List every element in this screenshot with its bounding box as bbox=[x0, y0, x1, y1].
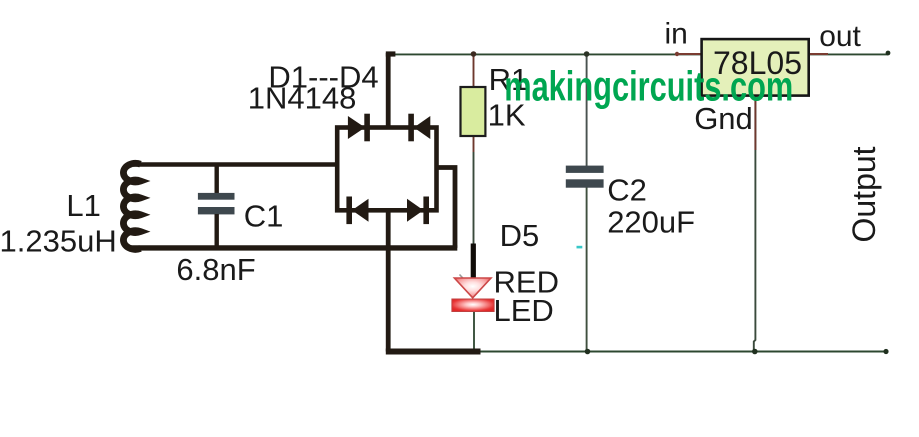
svg-text:1N4148: 1N4148 bbox=[248, 81, 357, 116]
capacitor C2 plates bbox=[566, 166, 604, 173]
regulator U1 78L05 body bbox=[702, 39, 809, 96]
svg-text:C2: C2 bbox=[607, 173, 647, 208]
diode D1 (top-left of bridge) bbox=[348, 114, 370, 142]
capacitor C1 plates bbox=[198, 193, 235, 200]
svg-text:out: out bbox=[819, 20, 861, 53]
wire: C2 bottom lead to bottom rail bbox=[586, 187, 588, 352]
wire: LED cathode lead to bottom rail bbox=[473, 311, 475, 352]
LED D5 triangle bbox=[454, 278, 491, 298]
svg-text:6.8nF: 6.8nF bbox=[176, 252, 255, 287]
capacitor C1 top lead bbox=[214, 165, 218, 194]
node: junction dot C2/top rail bbox=[584, 51, 590, 57]
bridge rectifier square bbox=[337, 128, 436, 211]
svg-text:LED: LED bbox=[494, 293, 554, 328]
svg-text:C1: C1 bbox=[244, 199, 284, 234]
stray cyan tick bbox=[577, 246, 583, 249]
wire: R1 bottom lead down to LED anode bbox=[473, 135, 475, 152]
svg-text:D5: D5 bbox=[500, 218, 540, 253]
wire: 78L05 output pin segment (dark red) bbox=[808, 53, 828, 55]
node: junction dot Gnd/bottom rail bbox=[752, 349, 758, 355]
wire: bottom DC rail (thin green) right portion bbox=[479, 351, 886, 353]
LED D5 anode thick lead bbox=[471, 244, 476, 278]
LED D5 cathode bar bbox=[452, 299, 494, 312]
node: junction dot R1/top rail bbox=[471, 51, 477, 57]
resistor R1 body bbox=[461, 87, 486, 136]
wire: bridge DC- drop to bottom rail bbox=[386, 210, 391, 352]
wire: R1 top lead (dark red) from top rail to resistor bbox=[473, 54, 475, 88]
svg-text:Output: Output bbox=[846, 146, 882, 242]
diode D2 (top-right of bridge) bbox=[408, 114, 430, 142]
wire: 78L05 ground lead down to bottom rail bbox=[754, 95, 756, 352]
wire: top DC rail (thin green) from bridge top to output terminal bbox=[389, 53, 888, 55]
wire: C2 top lead from top rail bbox=[586, 54, 588, 166]
svg-text:220uF: 220uF bbox=[607, 205, 695, 240]
wire: 78L05 input pin segment (dark red) bbox=[676, 53, 703, 55]
inductor L1 coil bbox=[123, 163, 140, 249]
LED D5 ray tick bbox=[460, 275, 464, 279]
wire: bottom AC wire from L1 under C1 to riser bbox=[131, 245, 457, 250]
svg-text:makingcircuits.com: makingcircuits.com bbox=[504, 63, 793, 110]
diode D3 (bottom-left of bridge) bbox=[346, 197, 368, 225]
wire: bridge DC+ riser to top rail bbox=[386, 53, 391, 128]
diode D4 (bottom-right of bridge) bbox=[407, 197, 429, 225]
svg-text:1.235uH: 1.235uH bbox=[0, 224, 117, 259]
wire: top AC wire from L1 to bridge left node bbox=[133, 162, 340, 167]
wire: right AC riser up to bridge right node bbox=[436, 168, 455, 248]
svg-text:L1: L1 bbox=[66, 188, 100, 223]
node: output negative terminal dot bbox=[883, 349, 888, 354]
node: output positive terminal dot bbox=[886, 51, 891, 56]
wire: bottom rail thick black portion bbox=[386, 349, 481, 355]
svg-text:in: in bbox=[665, 18, 688, 51]
node: junction dot on input pin wire bbox=[675, 52, 679, 56]
node: junction dot C2/bottom rail bbox=[585, 349, 591, 355]
capacitor C1 bottom lead bbox=[214, 214, 218, 248]
